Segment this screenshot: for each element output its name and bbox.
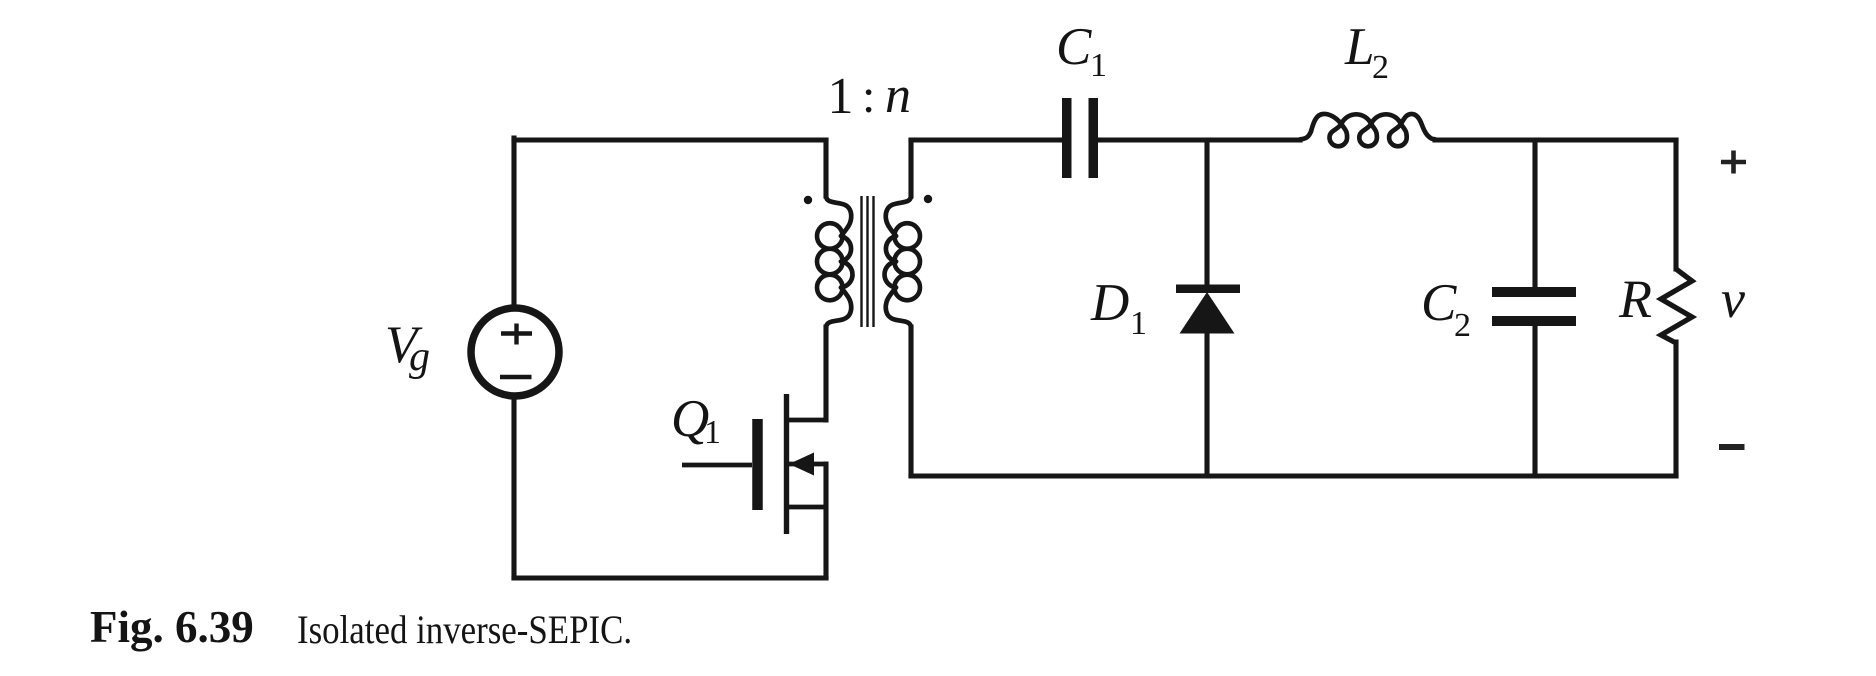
svg-text::: : [862,70,875,123]
wire: input loop bottom rail [514,575,826,580]
wire: secondary top lead [908,140,913,196]
wire: top rail C1 to L2 [1098,137,1300,142]
wire: secondary bottom rail [911,473,1676,478]
svg-text:Isolated inverse-SEPIC.: Isolated inverse-SEPIC. [297,609,632,653]
svg-text:2: 2 [1372,49,1389,86]
wire: top rail L2 to right edge [1435,137,1676,142]
svg-text:C: C [1056,18,1092,76]
svg-text:D: D [1090,274,1129,332]
wire: input loop top rail [514,137,826,142]
wire: secondary bottom lead [908,327,913,476]
transistor Q1 MOSFET [682,394,826,534]
wire: input loop left side bottom [511,396,516,578]
svg-text:g: g [409,334,430,380]
gate bar [752,419,763,510]
svg-text:2: 2 [1454,307,1471,344]
wire: D1 branch upper [1204,140,1209,285]
resistor R [1661,269,1692,343]
wire: right edge upper [1673,140,1678,269]
wire: primary top lead [823,140,828,196]
svg-text:v: v [1721,269,1745,329]
source stub [788,505,826,510]
svg-text:1: 1 [1090,47,1107,84]
wire: Q1 source chain to bottom rail [823,464,828,578]
wire: input loop left side top [511,138,516,308]
voltage source Vg [471,308,559,396]
primary dot [804,196,812,204]
plus terminal [1721,151,1746,174]
transformer core [862,196,874,327]
minus terminal [1719,444,1745,450]
svg-text:L: L [1344,18,1374,76]
wire: C2 branch upper [1532,140,1537,290]
diode D1 [1176,285,1240,334]
wire: primary bottom lead to Q1 drain [823,327,828,420]
secondary dot [924,195,932,203]
svg-text:1: 1 [704,414,721,451]
svg-text:1: 1 [828,68,854,125]
gate lead [682,463,752,468]
capacitor C1 [1062,98,1098,178]
transformer primary winding [826,196,851,236]
svg-text:C: C [1421,274,1457,332]
svg-text:1: 1 [1130,305,1147,342]
wire: C2 branch lower [1532,323,1537,476]
wire: right edge lower [1673,342,1678,476]
wire: D1 branch lower [1204,330,1209,476]
transformer secondary winding [886,196,911,236]
channel bar [784,394,789,534]
Q1 body arrow [789,453,814,476]
svg-text:n: n [885,67,911,124]
capacitor C2 [1492,287,1576,326]
inductor L2 [1300,114,1341,139]
body stub [788,462,826,467]
svg-text:Fig. 6.39: Fig. 6.39 [90,602,254,652]
wire: top rail to C1 [911,137,1062,142]
drain stub [788,418,826,423]
svg-text:R: R [1618,269,1652,329]
